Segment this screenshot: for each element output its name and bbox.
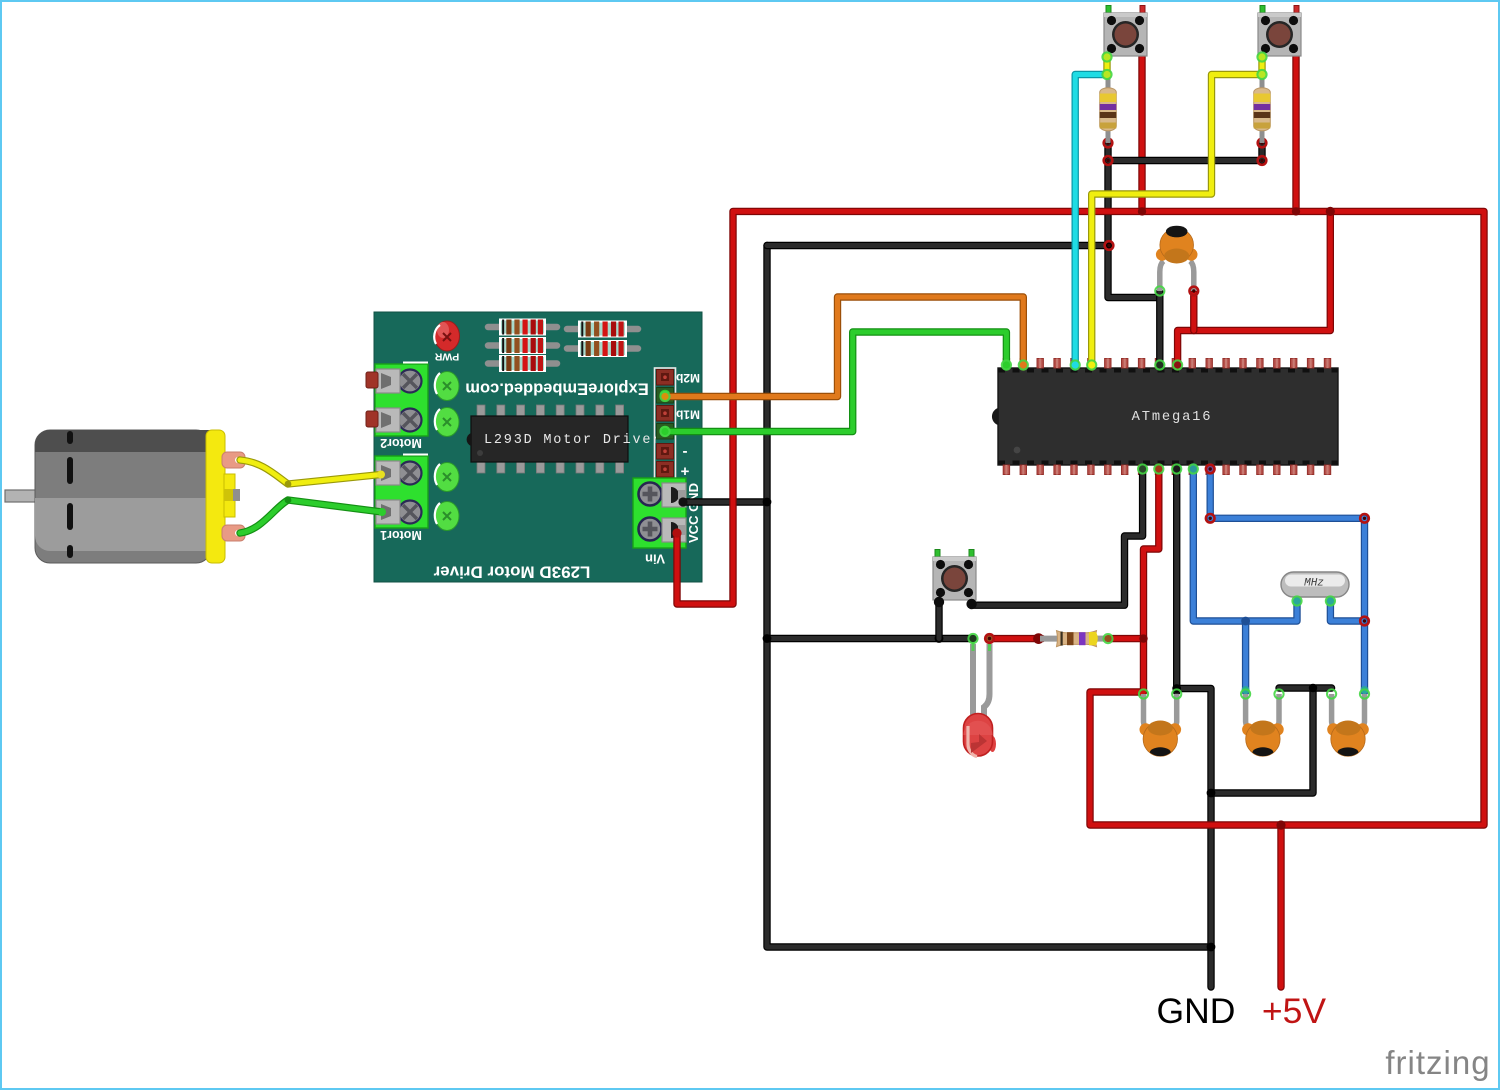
wire crystal net to capacitor C3 left leg (blue) (1242, 621, 1249, 692)
junction GND stub / ground bus (1207, 943, 1216, 952)
svg-text:MHz: MHz (1304, 578, 1324, 590)
label GND (1157, 991, 1236, 1031)
connection ring ATmega bottom pin (cap) (1172, 464, 1181, 473)
connection ring S1/R1/cyan node (1102, 70, 1111, 79)
label Vin (645, 552, 665, 567)
node S1/R1/cyan (lime) (1103, 70, 1111, 78)
connection ring ATmega XTAL1 (1189, 464, 1198, 473)
red wire tip at VCC terminal (672, 528, 681, 537)
orange wire tip at ATmega pin 2 (1019, 361, 1027, 369)
LED D1 (red) (963, 714, 996, 757)
blue wire tip at ATmega XTAL1 (1189, 465, 1197, 473)
blue wire tip at C4 right leg (teal) (1361, 686, 1369, 694)
junction ground bus / LED run (763, 634, 772, 643)
svg-text:VCC GND: VCC GND (686, 483, 701, 543)
svg-text:L293D Motor Driver: L293D Motor Driver (484, 433, 662, 448)
wire +5V rail to ATmega pin 11 (red) (1178, 211, 1331, 367)
label VCC GND (686, 483, 701, 543)
svg-text:-: - (683, 444, 688, 461)
wire pushbutton S2 to ATmega pin 6 (yellow) (1092, 75, 1262, 368)
LED D1 leads (973, 644, 990, 720)
connection ring C2 right leg (1172, 689, 1181, 698)
wire resistor R1 to resistor R2 (black) (1108, 157, 1262, 164)
junction +5V rail / S2 (1292, 207, 1300, 215)
wire pushbutton S2 leg stub (yellow) (1258, 53, 1265, 75)
node S2/R2/yellow (lime) (1258, 70, 1266, 78)
green wire tip in Motor1 socket (378, 508, 386, 516)
label Motor1 (380, 528, 422, 542)
green wire tip at ATmega pin 1 (1002, 361, 1010, 369)
connection ring C3 left leg (1241, 689, 1250, 698)
wire LED anode to resistor R3 (red) (990, 635, 1042, 642)
resistor R1 (4.7k, vertical) (1100, 75, 1117, 144)
crystal legs (1297, 595, 1330, 603)
label Motor2 (380, 436, 422, 450)
svg-text:ExploreEmbedded.com: ExploreEmbedded.com (465, 380, 648, 398)
red wire tip at ATmega pin 11 (1173, 361, 1182, 370)
svg-text:ATmega16: ATmega16 (1132, 410, 1213, 425)
wire motor to Motor1 terminal (yellow) (240, 460, 381, 484)
wire +5V main loop (red) (677, 211, 1484, 825)
wire ground bus top run (black) (767, 242, 1109, 249)
Motor2 screw terminal (366, 363, 428, 437)
wire capacitor net bottom run (black) (1211, 688, 1313, 793)
ATmega16 IC body (992, 368, 1338, 465)
wire capacitor C1 left leg to ATmega pin 10 (black) (1156, 292, 1163, 367)
blue wire tip at C3 left leg (teal) (1242, 686, 1250, 694)
connection ring S1 leg (1102, 52, 1111, 61)
capacitor C2 (22pF) (1140, 721, 1182, 757)
crystal right pin tip (teal) (1326, 597, 1334, 605)
wire pushbutton S3 to ATmega (black) (972, 467, 1143, 605)
capacitor C2 leads (1144, 694, 1177, 729)
wire ground bus left/bottom (black) (767, 246, 1211, 948)
resistor R3 (horizontal, LED series) (1040, 631, 1108, 647)
connection ring C4 right leg (1360, 689, 1369, 698)
connection ring ATmega bottom pin (S3) (1138, 464, 1147, 473)
ATmega16 pins (top and bottom rows) (1003, 359, 1331, 475)
wire ATmega XTAL2 to capacitor C4 (blue) (1210, 467, 1364, 692)
LED D1 lead tips (973, 642, 990, 651)
wire resistor R2 bottom stub (black) (1258, 143, 1265, 161)
connection ring C4 left leg (1327, 689, 1336, 698)
label +5V (1262, 991, 1326, 1031)
wire ATmega to capacitor C2 right leg (black) (1173, 467, 1180, 692)
resistor network group (3 resistors) on driver board (488, 320, 557, 335)
junction red net / resistor R3 (1139, 634, 1147, 642)
bend ring R1 net (1104, 156, 1113, 165)
black wire tip at GND terminal (678, 497, 687, 506)
junction +5V rail / capacitor branch (1326, 207, 1335, 216)
connection ring ATmega bottom pin (LED) (1154, 464, 1163, 473)
resistor R2 (4.7k, vertical) (1254, 75, 1271, 144)
bend ring blue corner (1360, 514, 1369, 523)
PWR LED (red) on driver board (434, 321, 459, 351)
wire ATmega XTAL1 to crystal left pin (blue) (1193, 467, 1297, 621)
pushbutton S1 (1104, 6, 1147, 57)
wire pushbutton S2 to +5V rail (red) (1292, 53, 1299, 211)
wire pushbutton S1 to +5V rail (red) (1138, 53, 1145, 211)
svg-text:L293D Motor Driver: L293D Motor Driver (433, 563, 590, 582)
bend ring R2 net (1258, 156, 1267, 165)
LED anode node dot (986, 635, 993, 642)
connection ring R3 right (1103, 634, 1112, 643)
wire capacitor net to GND stub (black) (1177, 689, 1211, 988)
black wire tip at ATmega bottom (cap net) (1173, 465, 1181, 473)
label PWR (434, 351, 459, 363)
pushbutton S3 (933, 550, 976, 601)
pushbutton S3 bottom pins (934, 597, 977, 609)
capacitor C3 leads (1246, 694, 1279, 729)
wire joint (yellow) (285, 481, 292, 488)
bend ring C1 right leg (1190, 287, 1199, 296)
wire pushbutton S1 leg stub (yellow) (1103, 53, 1110, 75)
pushbutton S2 (1258, 6, 1301, 57)
header pin strip (M2b/M2a/M1b/M1a/-/+) (655, 368, 676, 479)
resistor network group (2 resistors) on driver board (567, 322, 638, 337)
wire pushbutton S3 to ground bus (black) (935, 600, 942, 639)
node S2 leg (lime) (1258, 53, 1266, 61)
yellow wire tip in Motor1 socket (377, 471, 385, 479)
green wire tip at M1a (661, 427, 670, 436)
wire GND terminal to ground bus (black) (683, 498, 767, 505)
capacitor C1 leads (1160, 261, 1194, 291)
junction blue net / C3 drop (1241, 617, 1250, 626)
capacitor C3 (22pF) (1242, 721, 1284, 757)
DC motor body (35, 430, 225, 563)
bend ring blue / crystal tee (1360, 617, 1369, 626)
R3 right node dot (1104, 635, 1111, 642)
motor terminal (bottom) (222, 525, 245, 541)
motor mounting tab (224, 474, 240, 517)
connection ring C1 left leg (1155, 286, 1164, 295)
connection ring M1a (660, 427, 669, 436)
connection ring crystal right pin (1326, 596, 1335, 605)
wire ground bus to LED cathode (black) (767, 635, 973, 642)
connection ring ATmega pin 2 (1019, 360, 1028, 369)
svg-text:M2b: M2b (676, 371, 700, 385)
capacitor C4 leads (1332, 694, 1365, 729)
wire pushbutton S1 to ATmega pin 5 (cyan) (1075, 75, 1107, 368)
connection ring C3 right leg (1274, 689, 1283, 698)
bend ring LED anode (985, 634, 994, 643)
blue wire tip at ATmega XTAL2 (1206, 465, 1214, 473)
svg-text:M1b: M1b (676, 408, 700, 422)
node S1 leg (lime) (1103, 53, 1111, 61)
connection ring S2 leg (1257, 52, 1266, 61)
wire joint (green) (285, 497, 292, 504)
wire capacitor C3 to C4 link (black) (1279, 684, 1332, 691)
LED cathode node dot (969, 635, 976, 642)
connection ring M2a (660, 392, 669, 401)
junction LED run / pushbutton S3 (935, 634, 944, 643)
wire capacitor C1 right leg drop (red) (1190, 293, 1197, 331)
svg-text:PWR: PWR (434, 351, 459, 363)
bend ring R2 bottom (1258, 139, 1267, 148)
L293D motor driver board PCB (374, 312, 702, 582)
black wire tip at ATmega pin 10 (1156, 361, 1164, 369)
crystal left pin tip (teal) (1293, 597, 1301, 605)
black wire tip at ATmega bottom (S3 net) (1139, 465, 1147, 473)
silkscreen L293D Motor Driver (board title) (433, 563, 590, 582)
svg-text:Vin: Vin (645, 552, 665, 567)
connection ring ATmega pin 6 (1087, 360, 1096, 369)
motor casing slots (67, 431, 73, 558)
svg-text:+5V: +5V (1262, 991, 1326, 1031)
cyan wire tip at ATmega pin 5 (1071, 361, 1079, 369)
red wire end cap at R3 left (1033, 633, 1044, 644)
DC motor shaft (5, 490, 38, 502)
junction GND stub / bottom run (1207, 789, 1216, 798)
wire XTAL2 net to crystal right pin (blue) (1330, 601, 1364, 621)
capacitor C1 (100nF, reset) (1156, 226, 1198, 264)
L293D IC on driver board (467, 405, 663, 473)
capacitor C4 (22pF) (1327, 721, 1369, 757)
junction +5V stub (1276, 820, 1285, 829)
junction ground bus / GND terminal (763, 498, 772, 507)
junction C3-C4 link (1309, 684, 1317, 692)
connection ring ATmega pin 1 (1002, 360, 1011, 369)
svg-text:+: + (680, 463, 689, 480)
bend ring R1 bottom (1104, 139, 1113, 148)
junction +5V rail / S1 (1138, 207, 1146, 215)
yellow wire tip at ATmega pin 6 (1088, 361, 1096, 369)
svg-text:fritzing: fritzing (1385, 1044, 1490, 1081)
fritzing watermark (1385, 1044, 1490, 1081)
crystal Y1 (MHz) (1281, 572, 1349, 597)
wire motor to Motor1 terminal (green) (240, 500, 382, 533)
silkscreen ExploreEmbedded.com (465, 380, 648, 398)
connection ring crystal left pin (1292, 596, 1301, 605)
junction cap C2 right leg (1172, 684, 1181, 693)
orange wire tip at M2a (661, 393, 669, 401)
wire resistor R3 to red net (1109, 635, 1144, 642)
connection ring C2 left leg (1139, 689, 1148, 698)
svg-text:Motor1: Motor1 (380, 528, 422, 542)
connection ring ATmega pin 5 (1071, 360, 1080, 369)
indicator LEDs (green) on driver board (435, 372, 459, 531)
wire +5V stub (red) (1277, 825, 1284, 987)
wire resistor R1 bottom to capacitor C1 (black) (1108, 143, 1160, 298)
connection ring S2/R2/yellow node (1257, 70, 1266, 79)
svg-text:Motor2: Motor2 (380, 436, 422, 450)
connection ring ATmega pin 11 (1173, 360, 1182, 369)
Vin VCC/GND screw terminal (633, 478, 686, 548)
bend ring black junction (1105, 241, 1114, 250)
connection ring LED cathode (968, 634, 977, 643)
red wire tip at ATmega bottom (LED net) (1155, 465, 1163, 473)
wire M1a to ATmega pin 1 (green) (664, 332, 1006, 432)
wire M2a to ATmega pin 2 (orange) (664, 297, 1023, 397)
bend ring blue at ATmega (1206, 514, 1215, 523)
Motor1 screw terminal (375, 455, 428, 529)
svg-text:GND: GND (1157, 991, 1236, 1031)
connection ring ATmega pin 10 (1155, 360, 1164, 369)
header labels M2b M1b - + (676, 371, 700, 480)
motor terminal (top) (222, 452, 245, 468)
junction black net / ground bus top (1105, 241, 1113, 249)
bend ring ATmega XTAL2 (1206, 465, 1215, 474)
